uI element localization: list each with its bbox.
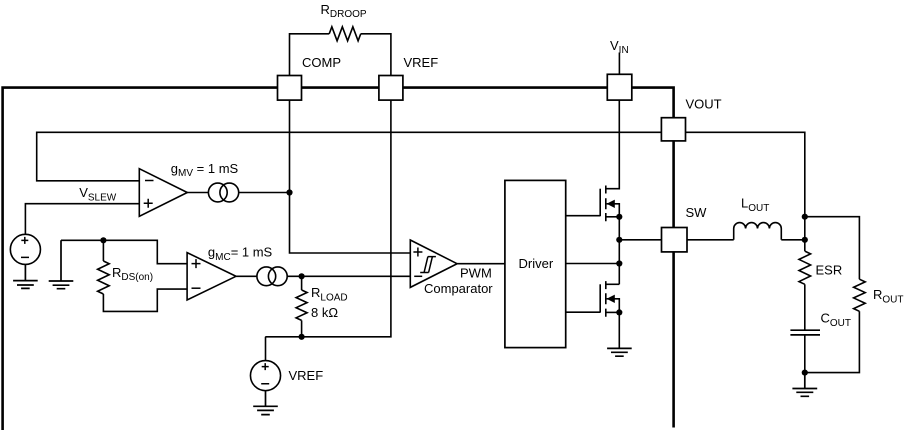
plus mark gMC [192,259,201,268]
resistor R_OUT [854,279,866,311]
ground under VREF source [253,391,278,415]
resistor ESR [799,251,811,284]
gate bar [599,284,601,312]
wire Driver mid to SW net [566,263,620,265]
node R_LOAD bottom junction [299,334,305,340]
wire SW pad to inductor [687,239,734,241]
svg-text:VREF: VREF [289,368,324,383]
wire gMV output [187,192,208,194]
wire down to inductor node [804,217,806,240]
drain lead [606,100,620,189]
wire inductor to node [781,239,805,241]
capacitor C_OUT [790,330,820,335]
wire RDS(on) top rail [61,240,187,263]
svg-text:Driver: Driver [519,256,554,271]
ground output [792,373,817,397]
channel segments [605,281,607,317]
source V_SLEW [10,234,40,264]
svg-text:8 kΩ: 8 kΩ [311,305,338,320]
wire gMC output [236,275,257,277]
wire R_LOAD bottom [301,320,303,336]
ground node left [49,240,74,288]
wire VIN label stem [618,53,620,75]
pad VREF [379,76,403,101]
hysteresis symbol [420,257,436,273]
wire to resistor R_LOAD [301,276,303,290]
wire ESR to C_OUT [804,284,806,330]
wire Driver to upper gate [566,215,601,217]
node SW wire junction [616,237,622,243]
ground under Q2 [607,348,632,356]
wire V_SLEW to gMV + input [25,204,139,235]
wire VREF net vertical and bottom horizontal [265,100,391,337]
pad SW [662,228,688,252]
node output bottom junction [802,370,808,376]
body arrow [607,299,620,313]
resistor RDS(on) [98,261,110,294]
inductor L_OUT [734,223,782,240]
svg-text:SW: SW [686,205,708,220]
node inductor junction [802,237,808,243]
wire R_OUT bottom [805,311,860,372]
svg-text:ESR: ESR [816,263,843,278]
resistor R_LOAD [296,290,307,320]
pad COMP [278,76,302,101]
wire Driver to lower gate [566,311,601,313]
minus mark PWM [414,275,422,277]
wire VOUT feedback to gMV - input [37,132,662,181]
Driver block [505,180,566,347]
svg-text:Comparator: Comparator [424,281,493,296]
channel segments [605,186,607,222]
wire Q2 source to ground [618,312,620,348]
wire VREF source stem [265,337,267,361]
node gMC output junction [299,273,305,279]
wire RDS(on) bottom to gMC - input [103,289,187,311]
wire SW to pad [619,239,661,241]
op-amp gMV [139,169,187,217]
minus mark gMC [192,287,201,289]
drain lead [606,283,620,285]
wire C_OUT to bottom node [804,335,806,373]
minus mark gMV [145,180,154,182]
wire COMP pad up to R_DROOP [290,34,330,76]
wire COMP net vertical and to PWM + input [290,100,411,253]
ground under V_SLEW [13,264,38,288]
body arrow [607,204,620,217]
svg-text:VOUT: VOUT [686,96,722,111]
source lead [606,216,620,218]
wire PWM output to Driver [457,263,505,265]
pad VIN [607,74,632,100]
op-amp gMC [187,253,236,300]
wire VOUT pad to output node [686,132,805,216]
plus mark gMV [144,199,153,208]
pad VOUT [661,118,685,141]
wire gMC to PWM - input [287,275,410,277]
current source gMV (double circle) [208,183,227,202]
wire node to ESR [804,240,806,251]
svg-text:PWM: PWM [460,265,492,280]
transistor Q1 (high-side MOSFET) [600,100,619,221]
svg-text:VREF: VREF [404,55,439,70]
transistor Q2 (low-side MOSFET) [600,281,619,317]
node Q1 source junction [616,214,622,220]
node gMV output junction [286,189,292,195]
svg-text:COMP: COMP [302,55,341,70]
current source gMC (double circle) [257,267,276,286]
node RDS(on) top [100,237,106,243]
IC boundary (thick outline) [3,88,674,430]
wire SW vertical [618,217,620,284]
node output top junction [802,214,808,220]
gate bar [599,189,601,217]
comparator PWM (hysteresis) [410,240,457,287]
wire to resistor RDS(on) [102,240,104,261]
source lead [606,311,620,313]
node driver mid junction [616,260,622,266]
wire R_DROOP to VREF pad [361,34,391,76]
plus mark PWM [413,248,422,257]
wire gMV current source to COMP net [239,192,290,194]
source VREF [250,361,280,391]
resistor R_DROOP [329,27,361,41]
wire branch to R_OUT [805,217,860,280]
node Q2 source junction [616,309,622,315]
